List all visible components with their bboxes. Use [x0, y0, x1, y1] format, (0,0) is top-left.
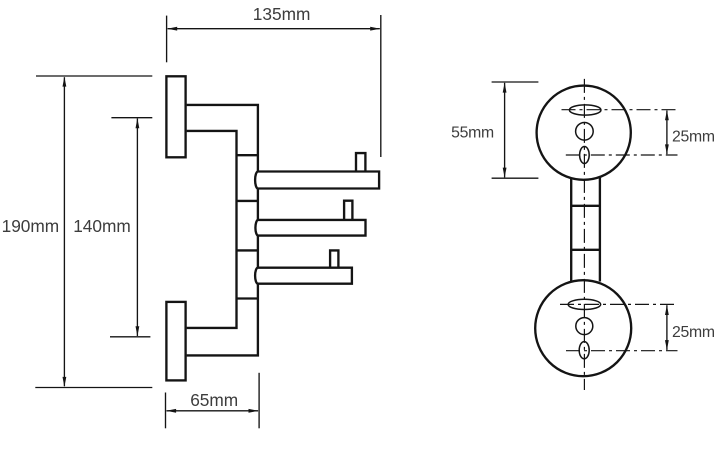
hook arm 3	[255, 268, 352, 284]
svg-text:25mm: 25mm	[672, 324, 715, 341]
centerlines	[560, 79, 678, 390]
arrows 140	[136, 118, 140, 128]
svg-text:55mm: 55mm	[451, 125, 494, 142]
dim 140mm	[111, 117, 152, 119]
svg-text:140mm: 140mm	[73, 216, 131, 236]
outer contour: top arm top, post right, bottom arm bottom	[187, 105, 258, 356]
inner details	[568, 105, 601, 359]
sleeve ticks	[237, 154, 258, 156]
right view dimensions	[492, 82, 667, 350]
dim 190mm	[36, 75, 152, 77]
arrows 190	[63, 77, 67, 87]
wall plates	[166, 76, 185, 157]
hook arm 2	[255, 220, 365, 236]
svg-text:65mm: 65mm	[190, 390, 238, 410]
dim 65mm	[165, 393, 167, 429]
svg-text:190mm: 190mm	[2, 216, 60, 236]
svg-text:25mm: 25mm	[672, 129, 715, 146]
hook arm 1	[255, 172, 379, 189]
arrows 65	[166, 409, 176, 413]
inner contour: top arm bottom, post left, bottom arm top	[187, 131, 237, 328]
dim 135mm	[166, 16, 168, 63]
svg-text:135mm: 135mm	[253, 4, 311, 24]
arrows 135	[167, 27, 177, 31]
